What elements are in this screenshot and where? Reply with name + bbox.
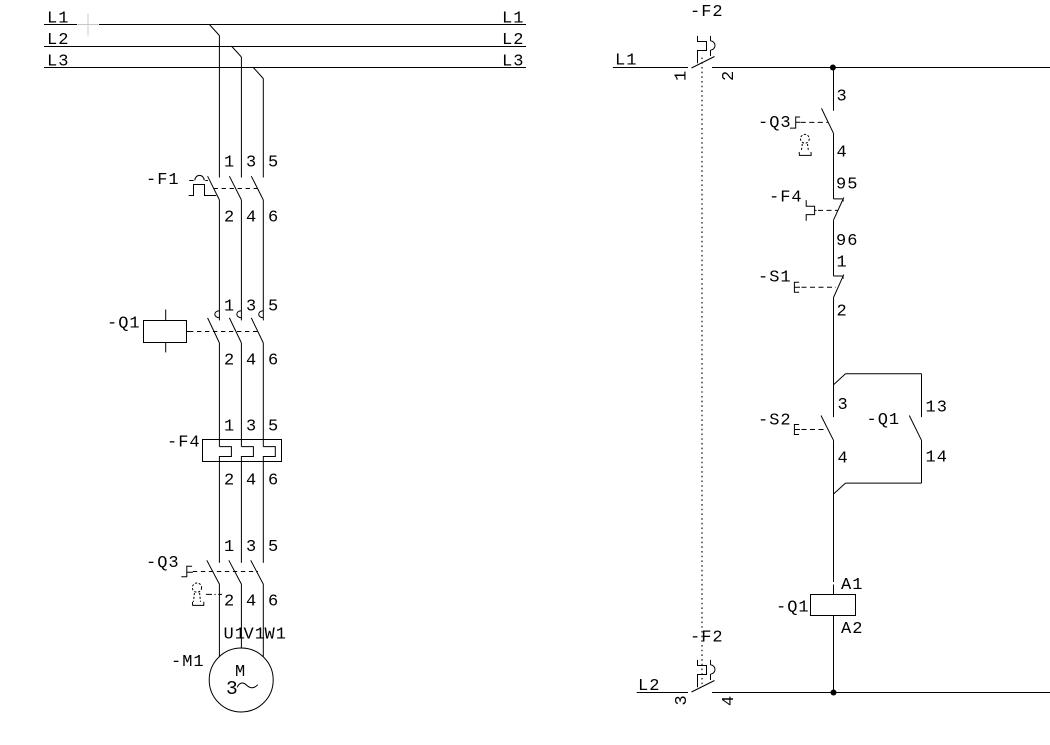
junction dot bottom <box>831 690 837 696</box>
svg-text:3: 3 <box>246 298 257 317</box>
svg-text:95: 95 <box>836 176 858 195</box>
Q3 actuator link dash <box>206 593 222 595</box>
Q3 aux latch symbol <box>790 117 800 128</box>
fuse breaker F2 upper pole <box>673 3 740 81</box>
svg-text:13: 13 <box>926 399 948 418</box>
svg-text:3: 3 <box>838 396 849 415</box>
S1 pushbutton icon <box>794 282 800 292</box>
wire tap L1 to pole1 <box>209 25 219 178</box>
Q3 aux blade <box>822 108 834 133</box>
svg-text:4: 4 <box>837 144 848 163</box>
svg-text:L2: L2 <box>638 677 660 696</box>
Q1 linkage dashed <box>187 331 258 333</box>
wire pole1 Q3-M1 <box>218 584 220 657</box>
F4 body rect <box>203 440 282 462</box>
F1 pole3 blade <box>251 176 263 200</box>
svg-text:2: 2 <box>224 593 235 612</box>
wire L1 left of F2 <box>613 67 688 69</box>
svg-text:1: 1 <box>837 254 848 273</box>
thermal overload relay F4 <box>167 418 282 491</box>
svg-text:3: 3 <box>673 694 692 705</box>
fuse breaker F2 lower pole <box>673 629 739 707</box>
auxiliary contact Q1 <box>867 411 948 468</box>
svg-text:-Q1: -Q1 <box>776 599 810 618</box>
wire pole1 F1-Q1 <box>218 200 220 321</box>
svg-text:1: 1 <box>224 418 235 437</box>
svg-text:L2: L2 <box>502 31 524 50</box>
F1 linkage dashed <box>214 188 258 190</box>
S1 tbar <box>834 276 844 279</box>
wire pole3 Q3-M1 <box>262 584 264 657</box>
F1 pole2 blade <box>229 176 241 200</box>
svg-text:6: 6 <box>268 472 279 491</box>
stop button S1 <box>758 269 848 322</box>
wire pole2 F1-Q1 <box>240 200 242 321</box>
wire L2 right of F2 <box>712 692 1050 694</box>
svg-text:L1: L1 <box>502 10 524 29</box>
F2 lower blade <box>692 681 715 693</box>
S1 blade <box>834 275 844 298</box>
F2 lower thermal release icon <box>698 660 707 687</box>
F2 mechanical coupling dotted <box>701 58 703 685</box>
wire pole3 F1-Q1 <box>262 200 264 321</box>
svg-text:2: 2 <box>224 352 235 371</box>
svg-text:6: 6 <box>268 352 279 371</box>
F4 NC tbar <box>834 199 844 202</box>
svg-text:-F2: -F2 <box>690 3 724 22</box>
S1 linkage dashed <box>802 286 837 288</box>
thermal contact F4 NC <box>769 189 858 252</box>
svg-text:4: 4 <box>246 472 257 491</box>
start button S2 <box>758 412 849 469</box>
svg-text:-F1: -F1 <box>146 171 180 190</box>
Q3 pole3 blade <box>251 560 264 584</box>
S2 linkage dashed <box>802 429 828 431</box>
Q1 pole2 blade <box>229 318 241 343</box>
svg-text:4: 4 <box>246 352 257 371</box>
svg-text:-Q3: -Q3 <box>758 114 792 133</box>
wire L3 bus <box>44 67 526 69</box>
wire pole3 Q1-F4 <box>262 343 264 447</box>
svg-text:3: 3 <box>246 418 257 437</box>
svg-text:A2: A2 <box>841 620 863 639</box>
junction dot <box>830 65 836 71</box>
F4 NC blade <box>834 198 844 221</box>
svg-text:5: 5 <box>268 538 279 557</box>
svg-text:6: 6 <box>268 593 279 612</box>
svg-text:L3: L3 <box>502 53 524 72</box>
svg-text:4: 4 <box>720 695 739 706</box>
svg-text:-S2: -S2 <box>758 412 792 431</box>
Q1 aux blade <box>909 416 921 441</box>
Q3 latch symbol <box>181 566 193 577</box>
svg-text:4: 4 <box>838 450 849 469</box>
svg-text:2: 2 <box>224 209 235 228</box>
Q3 pole1 blade <box>207 560 220 584</box>
svg-text:3: 3 <box>246 154 257 173</box>
wire pole2 Q3-M1 <box>240 584 242 648</box>
svg-text:2: 2 <box>720 70 739 81</box>
wire branch merge diagonal <box>834 483 846 494</box>
svg-text:-Q1: -Q1 <box>867 411 901 430</box>
wire branch right vertical lower <box>921 440 923 483</box>
M1 circle <box>209 648 273 712</box>
F2 blade <box>692 57 715 69</box>
svg-text:5: 5 <box>268 154 279 173</box>
wire branch top horizontal <box>846 373 922 375</box>
svg-text:3: 3 <box>837 88 848 107</box>
svg-text:5: 5 <box>268 418 279 437</box>
S2 pushbutton icon <box>794 425 800 435</box>
wire pole2 F4-Q3 <box>240 462 242 563</box>
wire branch bottom horizontal <box>846 482 922 484</box>
wire pole2 Q1-F4 <box>240 343 242 447</box>
svg-text:-F4: -F4 <box>167 434 201 453</box>
wire junction to Q3 aux <box>833 68 835 111</box>
F4 NC linkage dashed <box>818 209 838 211</box>
svg-text:-F4: -F4 <box>769 189 803 208</box>
Q1 pole1 blade <box>208 318 220 343</box>
svg-text:1: 1 <box>224 538 235 557</box>
F2 magnetic release icon <box>711 36 715 56</box>
svg-text:3: 3 <box>226 678 239 700</box>
wire S1-branch <box>833 298 835 418</box>
svg-text:L2: L2 <box>47 31 69 50</box>
circuit breaker F1 <box>146 154 279 228</box>
F2 lower magnetic release icon <box>711 660 715 680</box>
wire pole1 F4-Q3 <box>218 462 220 563</box>
contactor Q1 main contacts <box>107 298 279 371</box>
wire S2-coil <box>833 440 835 594</box>
wire coil to L2 <box>833 615 835 692</box>
F1 pole1 blade <box>208 176 220 200</box>
auxiliary contact Q3 <box>758 108 848 162</box>
F1 thermal release icon <box>189 185 217 196</box>
motor protection switch Q3 <box>146 538 279 612</box>
Q1 coil rect <box>811 595 856 616</box>
Q3 manual actuator <box>192 583 204 605</box>
Q1 pole3 contact arc <box>259 311 264 318</box>
Q1 pole1 contact arc <box>215 311 220 318</box>
svg-text:A1: A1 <box>841 576 863 595</box>
svg-text:-M1: -M1 <box>171 653 205 672</box>
wire tap L2 to pole2 <box>231 46 241 178</box>
svg-text:14: 14 <box>926 449 948 468</box>
svg-text:L3: L3 <box>47 53 69 72</box>
svg-text:5: 5 <box>268 298 279 317</box>
Q1 pole2 contact arc <box>237 311 242 318</box>
svg-text:2: 2 <box>224 472 235 491</box>
Q3 linkage dashed <box>193 571 258 573</box>
svg-text:1: 1 <box>224 298 235 317</box>
Q1 coil symbol <box>144 310 187 353</box>
F4 trip icon <box>806 200 816 221</box>
wire tap L3 to pole3 <box>253 68 263 178</box>
S2 blade <box>821 416 834 441</box>
wire F4-S1 <box>833 220 835 276</box>
Q3 aux linkage dashed <box>801 121 828 123</box>
wire branch split diagonal <box>834 374 846 385</box>
origin cross marker <box>78 14 99 36</box>
svg-text:-F2: -F2 <box>690 629 724 648</box>
svg-text:3: 3 <box>246 538 257 557</box>
F4 heater pole1 <box>219 447 231 462</box>
wire L1 right of F2 <box>712 67 1050 69</box>
wire pole3 F4-Q3 <box>262 462 264 563</box>
svg-text:96: 96 <box>836 232 858 251</box>
contactor coil Q1 <box>776 595 863 640</box>
wire pole1 Q1-F4 <box>218 343 220 447</box>
svg-text:-Q1: -Q1 <box>107 315 141 334</box>
svg-text:W1: W1 <box>265 626 287 645</box>
F2 thermal release icon <box>698 36 707 63</box>
svg-text:-S1: -S1 <box>758 269 792 288</box>
svg-text:L1: L1 <box>47 10 69 29</box>
svg-text:V1: V1 <box>244 626 266 645</box>
F4 heater pole3 <box>263 447 275 462</box>
M1 tilde wave <box>237 683 258 688</box>
F4 heater pole2 <box>241 447 253 462</box>
wire Q3aux-F4 <box>833 133 835 199</box>
Q3 pole2 blade <box>229 560 242 584</box>
wire L2 left of F2 <box>637 692 688 694</box>
svg-text:1: 1 <box>224 154 235 173</box>
wire L1 bus <box>44 24 526 26</box>
svg-text:2: 2 <box>837 303 848 322</box>
svg-text:6: 6 <box>268 209 279 228</box>
Q1 pole3 blade <box>251 318 263 343</box>
F1 magnetic release icon <box>189 175 208 180</box>
motor M1 <box>171 648 273 712</box>
svg-text:1: 1 <box>673 70 692 81</box>
wire branch right vertical upper <box>921 374 923 417</box>
Q3 aux actuator <box>799 134 811 155</box>
svg-text:-Q3: -Q3 <box>146 554 180 573</box>
svg-text:4: 4 <box>246 209 257 228</box>
svg-text:4: 4 <box>246 593 257 612</box>
wire L2 bus <box>44 46 526 48</box>
